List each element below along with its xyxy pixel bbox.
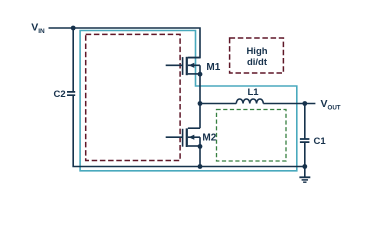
capacitor C2 bbox=[67, 92, 75, 95]
svg-text:C2: C2 bbox=[54, 89, 66, 100]
transistor M1 bbox=[166, 57, 200, 104]
wire: L1 to VOUT bbox=[263, 103, 315, 105]
node: ground junction bbox=[302, 164, 307, 169]
svg-text:L1: L1 bbox=[247, 87, 259, 98]
inductor L1 bbox=[236, 99, 263, 104]
svg-text:di/dt: di/dt bbox=[247, 57, 268, 68]
svg-text:M2: M2 bbox=[202, 133, 216, 144]
node: M2 source to ground rail junction bbox=[198, 164, 203, 169]
wire: switch node to L1 bbox=[200, 103, 236, 105]
high di/dt loop area (red dashed rectangle) bbox=[86, 34, 180, 160]
wire: C2 down along ground rail to C1 bbox=[73, 95, 305, 166]
svg-text:M1: M1 bbox=[206, 62, 220, 73]
low di/dt loop area (green dashed rectangle) bbox=[217, 110, 287, 162]
svg-text:High: High bbox=[246, 46, 267, 57]
hot loop current path outline (teal) bbox=[80, 31, 297, 171]
svg-text:V: V bbox=[321, 98, 328, 110]
svg-text:IN: IN bbox=[38, 28, 45, 35]
svg-text:OUT: OUT bbox=[328, 105, 341, 112]
node: VOUT junction bbox=[302, 101, 307, 106]
wire: VIN rail to M1 drain bbox=[49, 28, 201, 58]
svg-text:C1: C1 bbox=[314, 136, 327, 147]
capacitor C1 bbox=[300, 139, 310, 142]
ground bbox=[299, 167, 310, 183]
node: switch node junction bbox=[198, 101, 203, 106]
callout box: High di/dt (red dashed) bbox=[230, 38, 284, 73]
transistor M2 bbox=[166, 104, 200, 167]
wire: VIN junction down to C2 bbox=[72, 28, 74, 92]
wire: VOUT down to C1 bbox=[304, 104, 306, 140]
wire: C1 down to ground rail bbox=[304, 142, 306, 166]
node: VIN junction bbox=[71, 26, 76, 31]
